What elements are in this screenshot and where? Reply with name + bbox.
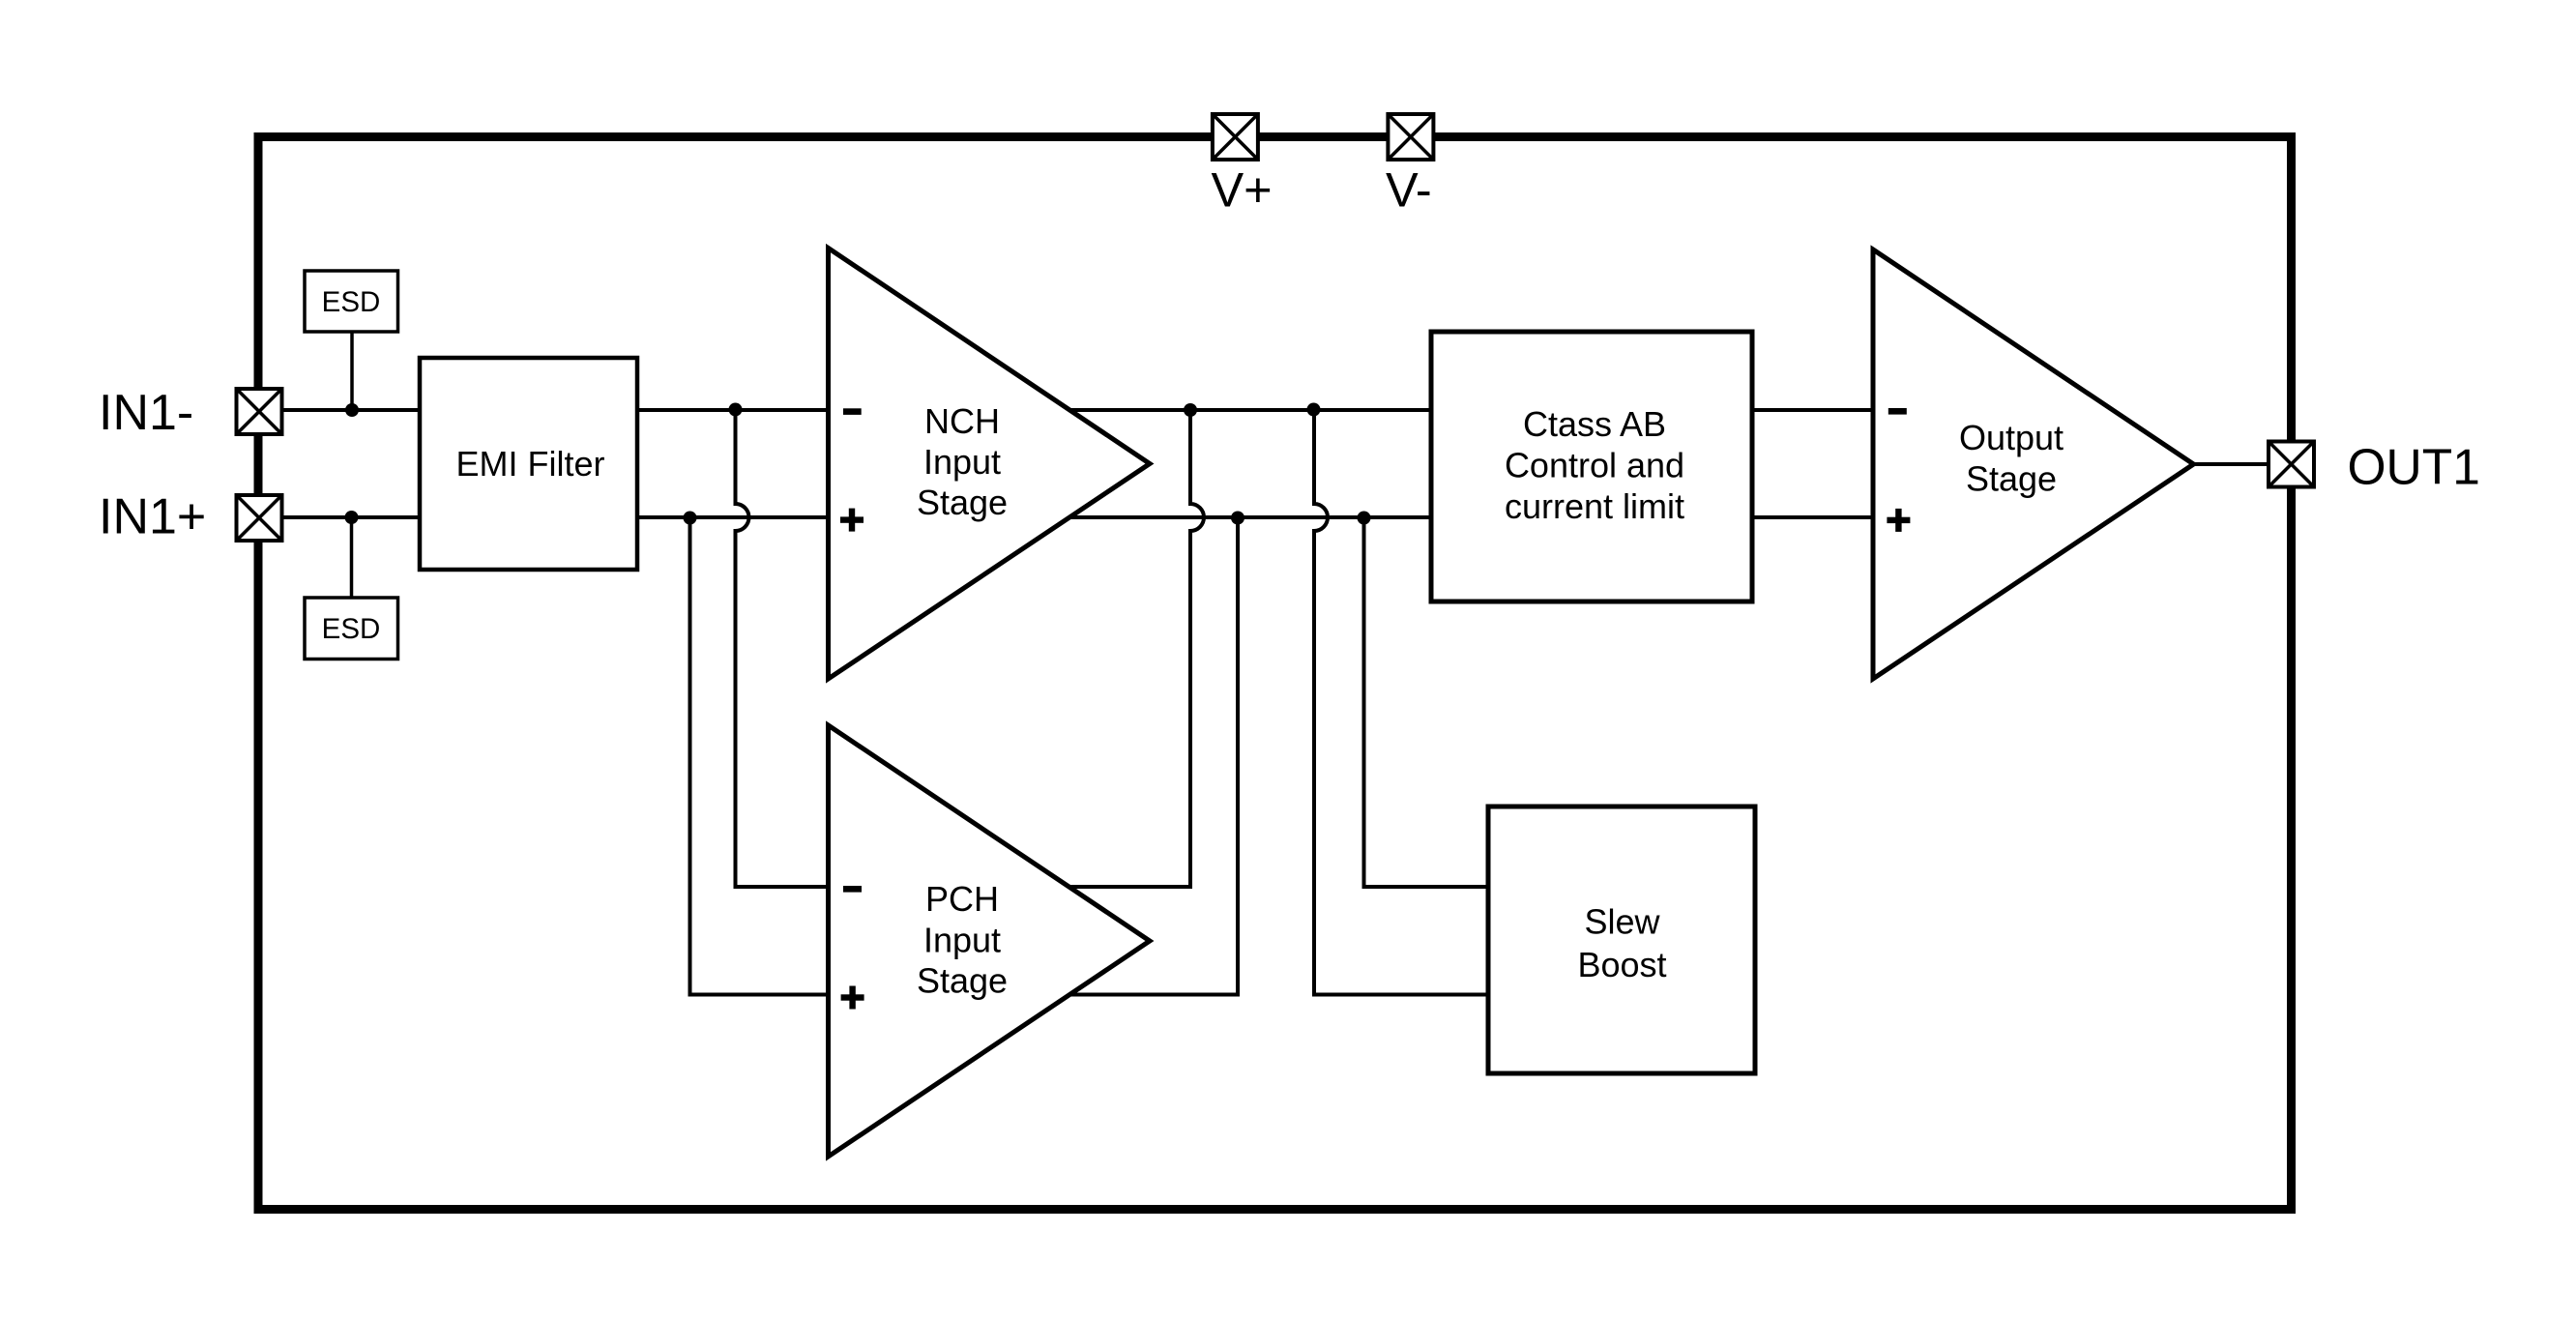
wire EMI filter to NCH plus input — [637, 515, 828, 519]
pin IN1- label — [99, 385, 193, 441]
ESD block bottom — [305, 598, 398, 660]
Output Stage plus pin label — [1887, 509, 1910, 532]
svg-text:ESD: ESD — [322, 286, 381, 318]
junction dot slew lower branch — [1307, 403, 1321, 417]
pin IN1+ — [237, 495, 282, 541]
wire PCH minus-level output up to node at x=1231 (hop over plus rail) — [1068, 410, 1204, 887]
ESD block top — [305, 271, 398, 332]
wire IN1+ branch down to PCH plus input — [690, 517, 829, 995]
PCH minus pin label — [843, 886, 862, 893]
junction dot IN1- branch — [729, 403, 743, 417]
Output Stage amplifier — [1873, 249, 2194, 679]
junction dot ESD top — [345, 403, 359, 417]
Slew Boost block — [1488, 807, 1755, 1073]
svg-text:OUT1: OUT1 — [2348, 439, 2480, 495]
pin V+ label — [1212, 161, 1273, 217]
junction dot IN1+ branch — [684, 512, 697, 525]
svg-text:Input: Input — [923, 920, 1001, 959]
svg-text:current limit: current limit — [1505, 486, 1684, 526]
EMI Filter block — [420, 358, 637, 570]
svg-text:IN1-: IN1- — [99, 385, 193, 441]
svg-text:IN1+: IN1+ — [99, 489, 206, 545]
wire PCH plus-level output up to node at x=1280 — [1068, 517, 1238, 995]
svg-text:Stage: Stage — [1966, 459, 2057, 499]
wire Class AB to Output Stage minus input — [1752, 408, 1872, 412]
svg-text:Output: Output — [1959, 418, 2064, 457]
op-amp boundary frame — [258, 137, 2292, 1210]
Class AB Control block — [1431, 332, 1752, 601]
wire node x=1410.5 down to Slew Boost upper input — [1364, 517, 1489, 887]
pin V+ — [1213, 114, 1258, 160]
svg-text:Boost: Boost — [1577, 945, 1666, 984]
pin IN1- — [237, 389, 282, 434]
PCH plus pin label — [841, 986, 864, 1010]
NCH plus pin label — [840, 509, 864, 532]
svg-text:Stage: Stage — [917, 961, 1008, 1001]
pin OUT1 — [2269, 442, 2314, 487]
wire IN1- pin to EMI filter — [259, 408, 420, 412]
wire IN1+ pin to EMI filter — [259, 515, 420, 519]
pin IN1+ label — [99, 489, 206, 545]
svg-text:Control and: Control and — [1505, 446, 1684, 485]
wire IN1- branch down to PCH minus input (hop over plus rail) — [736, 410, 829, 887]
svg-text:Stage: Stage — [917, 483, 1008, 522]
wire Class AB to Output Stage plus input — [1752, 515, 1872, 519]
wire node x=1359 down to Slew Boost lower input (hop over plus rail) — [1314, 410, 1488, 995]
svg-text:Slew: Slew — [1584, 902, 1660, 942]
junction dot slew upper branch — [1358, 512, 1371, 525]
wire ESD bottom tap — [350, 517, 354, 598]
wire Output Stage apex to OUT1 pin — [2193, 462, 2269, 466]
svg-text:V-: V- — [1386, 161, 1432, 217]
NCH minus pin label — [843, 408, 862, 415]
junction dot ESD bottom — [345, 511, 359, 524]
PCH Input Stage amplifier — [829, 725, 1151, 1157]
wire NCH minus-level output to Class AB — [1068, 408, 1431, 412]
svg-text:PCH: PCH — [925, 879, 999, 919]
wire NCH plus-level output to Class AB — [1068, 515, 1431, 519]
NCH Input Stage amplifier — [829, 249, 1151, 680]
pin V- label — [1386, 161, 1432, 217]
pin OUT1 label — [2348, 439, 2480, 495]
wire ESD top tap — [350, 332, 354, 410]
wire EMI filter to NCH minus input — [637, 408, 828, 412]
junction dot NCH/PCH minus join — [1184, 403, 1197, 417]
junction dot NCH/PCH plus join — [1231, 512, 1244, 525]
Output Stage minus pin label — [1888, 408, 1907, 415]
svg-text:NCH: NCH — [924, 401, 1000, 441]
svg-text:V+: V+ — [1212, 161, 1273, 217]
svg-text:Input: Input — [923, 442, 1001, 482]
svg-text:EMI Filter: EMI Filter — [455, 444, 604, 484]
pin V- — [1388, 114, 1433, 160]
svg-text:Ctass AB: Ctass AB — [1523, 404, 1666, 444]
svg-text:ESD: ESD — [322, 613, 381, 645]
